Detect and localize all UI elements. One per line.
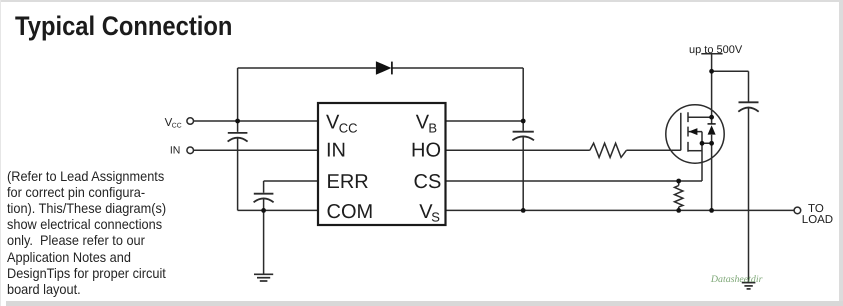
svg-text:B: B	[428, 120, 437, 135]
svg-text:CC: CC	[172, 122, 182, 129]
svg-text:TO: TO	[808, 203, 824, 215]
svg-text:S: S	[431, 209, 440, 224]
svg-text:HO: HO	[411, 139, 441, 161]
svg-text:up to 500V: up to 500V	[689, 44, 743, 56]
svg-text:Datasheetdir: Datasheetdir	[710, 274, 763, 285]
svg-text:IN: IN	[326, 139, 346, 161]
svg-text:ERR: ERR	[327, 171, 369, 193]
svg-text:IN: IN	[170, 145, 181, 157]
svg-text:CS: CS	[414, 171, 442, 193]
svg-text:LOAD: LOAD	[802, 214, 833, 226]
svg-text:COM: COM	[327, 201, 374, 223]
svg-text:CC: CC	[339, 120, 358, 135]
